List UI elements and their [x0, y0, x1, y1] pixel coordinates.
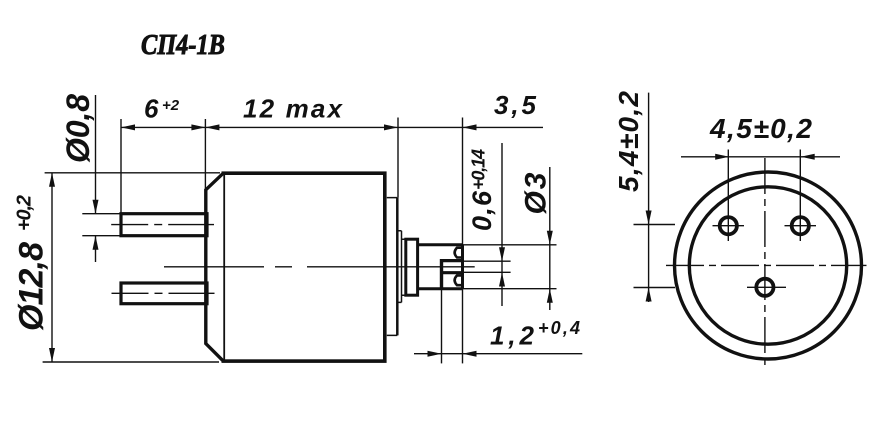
svg-text:4,5±0,2: 4,5±0,2 [709, 113, 812, 144]
1,2 dimension line [414, 353, 582, 355]
dimension line row (6+2 / 12max / 3,5) [121, 126, 543, 128]
main axis centerline [164, 266, 475, 268]
d3 dimension line [549, 167, 551, 310]
0,6 arrows [499, 247, 505, 261]
end view inner circle [689, 187, 846, 344]
d3 arrows [547, 231, 553, 245]
extension line at flange x=398 [397, 118, 399, 198]
lower pin centerline [112, 292, 215, 294]
upper lead pin [121, 214, 207, 236]
pin ring upper-left [720, 217, 737, 234]
extension line at shaft end x=462.5 [462, 118, 464, 245]
end view outer circle [675, 172, 862, 359]
svg-text:+0,14: +0,14 [469, 149, 489, 190]
left cap trapezoid [206, 173, 224, 361]
lower lead pin [121, 283, 207, 304]
d12.8 arrows [49, 173, 55, 187]
slot edges [442, 259, 463, 262]
4,5 arrows [715, 154, 729, 160]
shaft tip chamfer bottom [455, 275, 463, 285]
d12.8 dimension line [51, 173, 53, 362]
1,2 arrows [428, 351, 442, 357]
washer plate 1 [396, 198, 399, 336]
svg-text:СП4-1В: СП4-1В [141, 28, 225, 60]
dim row arrows [121, 124, 135, 130]
svg-text:0,6: 0,6 [467, 190, 497, 231]
svg-text:6: 6 [144, 93, 159, 123]
d0.8 arrows [93, 200, 99, 214]
upper pin centerline [111, 224, 214, 226]
shaft top and bottom edges [418, 243, 463, 246]
pin ring bottom [756, 279, 773, 296]
5,4 extension lines [634, 224, 676, 226]
svg-text:+0,2: +0,2 [14, 195, 36, 231]
pin ring upper-right [792, 217, 809, 234]
body outline (potentiometer case) [223, 173, 384, 361]
washer plate 2 [401, 231, 403, 303]
dimension texts [13, 90, 813, 351]
shaft tip chamfer top [455, 248, 463, 258]
0,6 dimension line [501, 143, 503, 306]
shaft edge extensions for d3 [463, 244, 557, 246]
svg-text:Ø0,8: Ø0,8 [60, 94, 96, 163]
svg-text:+0,4: +0,4 [538, 318, 580, 338]
extension line at pin end x=121 [120, 119, 122, 236]
d12.8 dimension extension lines [45, 172, 220, 174]
slot floor line [440, 259, 443, 289]
4,5 dimension line [681, 156, 840, 158]
slot floor extension down for 1,2 [441, 289, 443, 364]
end view horizontal centerline [666, 264, 867, 266]
end view vertical centerline [764, 158, 766, 369]
arrowheads [49, 124, 815, 362]
d0.8 dimension lines [95, 95, 97, 214]
5,4 dimension line [648, 93, 650, 302]
svg-text:3,5: 3,5 [494, 90, 537, 120]
pin edge extension stubs for d0.8 [82, 213, 121, 215]
svg-text:Ø3: Ø3 [520, 172, 553, 214]
svg-text:1,2: 1,2 [490, 321, 535, 351]
svg-text:5,4±0,2: 5,4±0,2 [613, 91, 644, 192]
collar bushing [406, 239, 418, 295]
shaft end face [461, 245, 464, 289]
5,4 arrows [646, 211, 652, 225]
slot edge extensions for 0,6 [463, 260, 511, 262]
svg-text:+2: +2 [162, 97, 180, 114]
pin crosshairs [713, 225, 745, 227]
extension line at cap x=205.4 [204, 119, 206, 190]
svg-text:Ø12,8: Ø12,8 [13, 242, 51, 331]
